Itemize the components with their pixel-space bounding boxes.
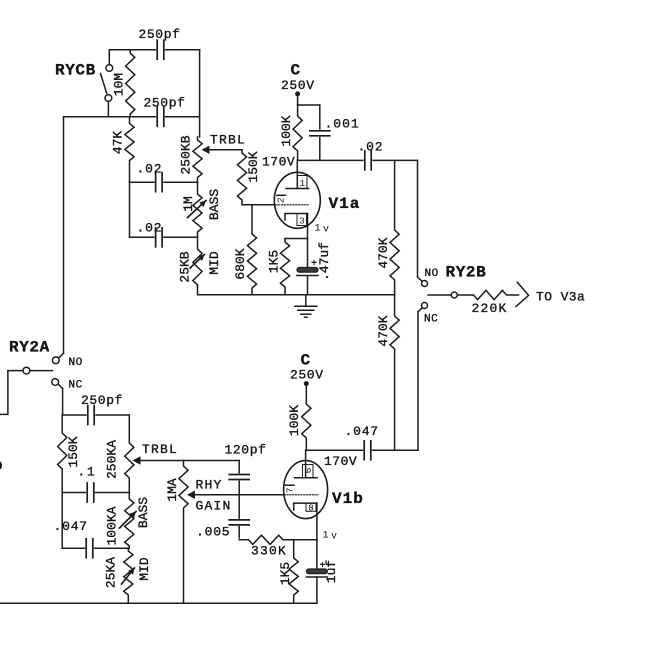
svg-text:.02: .02: [137, 221, 163, 236]
wire left branch down: [61, 493, 63, 549]
svg-text:TRBL: TRBL: [210, 133, 246, 148]
svg-text:.047: .047: [345, 424, 379, 439]
capacitor .02 (tone stack upper): [155, 171, 164, 193]
svg-text:v: v: [323, 225, 329, 236]
svg-text:250V: 250V: [290, 368, 324, 383]
resistor 47K: [125, 117, 134, 182]
25KB wiper arrow: [190, 255, 205, 269]
RY2A contact NO: [52, 357, 59, 364]
wire V1a cathode lead: [307, 214, 309, 239]
capacitor .47uf (electrolytic): [297, 268, 318, 273]
RYCB switch arm: [101, 74, 107, 94]
svg-text:TRBL: TRBL: [142, 442, 178, 457]
250KB wiper arrow: [202, 146, 210, 154]
svg-text:150K: 150K: [246, 151, 261, 182]
resistor 330K: [239, 535, 317, 544]
resistor 470K (lower): [390, 295, 399, 451]
svg-text:V1a: V1a: [329, 195, 361, 213]
supply node dot: [304, 381, 309, 386]
RY2B NC hook: [418, 308, 422, 312]
RY2B pole contact: [451, 292, 457, 298]
svg-text:7: 7: [284, 488, 295, 494]
svg-text:47K: 47K: [111, 131, 126, 155]
svg-text:250pf: 250pf: [81, 393, 123, 408]
resistor 680K: [247, 205, 256, 295]
wire right vertical joining caps to 250KB pot: [199, 50, 201, 137]
RYCB contact (bottom): [105, 95, 112, 102]
wire pole exit left: [0, 371, 8, 415]
250KA wiper arrow: [133, 456, 141, 464]
svg-text:250KA: 250KA: [105, 440, 120, 479]
wire input node to tone stack: [64, 116, 200, 118]
RY2B NO hook: [418, 277, 422, 281]
svg-text:.02: .02: [358, 140, 384, 155]
potentiometer 1M BASS: [193, 182, 202, 237]
wire lower tone-stack node: [130, 236, 198, 238]
wire RY2B pole: [428, 294, 451, 296]
capacitor .1: [86, 482, 95, 504]
wire supply stem: [305, 384, 307, 403]
svg-text:b: b: [0, 458, 3, 475]
V1b grid (dashed): [287, 494, 318, 496]
svg-text:25KA: 25KA: [104, 557, 119, 588]
svg-text:6: 6: [303, 467, 314, 473]
wire V1b cathode lead: [316, 503, 318, 540]
pin 1 box: [297, 176, 307, 189]
svg-text:330K: 330K: [251, 544, 287, 559]
svg-text:.047: .047: [54, 519, 88, 534]
wire grid node V1a: [242, 204, 275, 206]
svg-text:250pf: 250pf: [139, 27, 181, 42]
wire top node (250pf upper): [109, 49, 199, 51]
supply node dot: [295, 91, 300, 96]
svg-text:150K: 150K: [66, 436, 81, 467]
svg-text:RY2A: RY2A: [9, 339, 50, 357]
potentiometer 25KB MID: [193, 237, 202, 286]
svg-text:2: 2: [276, 197, 287, 203]
svg-text:RYCB: RYCB: [55, 62, 96, 80]
svg-text:1M: 1M: [181, 196, 196, 212]
svg-text:C: C: [291, 62, 301, 80]
wire V1a output to RY2B NO: [417, 160, 419, 276]
wire .005 leads: [238, 495, 240, 538]
pin 6 box: [303, 465, 314, 478]
wire .47uf to ground bus: [307, 276, 309, 295]
svg-text:100K: 100K: [287, 405, 302, 436]
resistor 100K (V1b plate load): [302, 403, 311, 450]
svg-text:470K: 470K: [376, 237, 391, 268]
svg-text:1: 1: [299, 178, 305, 189]
svg-text:1K5: 1K5: [278, 562, 293, 585]
potentiometer 250KA TRBL: [125, 415, 134, 493]
wire 250KB wiper to 150K: [210, 149, 243, 151]
1MA wiper arrow: [187, 491, 195, 499]
wire cathode node to 1uf: [316, 540, 318, 569]
wire RY2A NC to lower tone stack: [62, 389, 64, 416]
1M wiper arrow: [188, 201, 207, 218]
capacitor .005: [228, 519, 251, 526]
svg-text:8: 8: [308, 504, 313, 514]
potentiometer 25KA MID: [124, 548, 133, 603]
svg-text:.02: .02: [137, 162, 163, 177]
wire RY2B NC down to V1b output: [417, 312, 419, 451]
triode V1a envelope: [274, 172, 320, 228]
resistor 10M: [126, 50, 135, 117]
svg-text:220K: 220K: [472, 301, 508, 316]
svg-text:1: 1: [314, 223, 320, 235]
wire tone stack input down to RY2A NO: [63, 117, 65, 353]
wire 1uf to bus: [316, 577, 318, 603]
wire lower tone stack top node: [63, 414, 130, 416]
svg-text:120pf: 120pf: [225, 443, 267, 458]
svg-text:v: v: [331, 532, 337, 543]
svg-text:.001: .001: [325, 117, 360, 132]
ground: [305, 295, 307, 306]
wire middle node: [62, 492, 129, 494]
RY2A pole contact: [23, 367, 30, 374]
100KA wiper arrow: [120, 512, 137, 529]
svg-text:.47uf: .47uf: [317, 242, 332, 281]
capacitor 250pf (lower): [156, 106, 165, 128]
potentiometer 1MA RHY GAIN: [179, 461, 188, 604]
pin 7 box tick: [286, 484, 295, 486]
capacitor 250pf (lower channel): [87, 404, 96, 426]
svg-text:RY2B: RY2B: [446, 264, 487, 282]
svg-text:3: 3: [299, 215, 305, 226]
svg-text:170V: 170V: [262, 155, 295, 170]
svg-text:170V: 170V: [324, 454, 357, 469]
wire branch to .001: [298, 104, 320, 106]
capacitor .047 (coupling): [363, 439, 372, 461]
svg-text:250V: 250V: [281, 78, 315, 93]
wire RY2A pole left: [8, 370, 23, 372]
svg-text:V1b: V1b: [332, 490, 364, 508]
capacitor 120pf: [228, 473, 251, 480]
V1a plate bar: [286, 188, 309, 190]
wire bottom ground bus: [0, 602, 317, 604]
wire to .47uf: [307, 239, 309, 268]
svg-text:250pf: 250pf: [144, 96, 186, 111]
wire RYCB bottom contact stem: [107, 102, 109, 117]
resistor 150K: [237, 150, 246, 205]
capacitor 1uf (electrolytic): [306, 569, 327, 574]
RY2B contact NO: [422, 281, 428, 287]
capacitor 250pf (upper bright cap): [156, 39, 165, 61]
wire .001 cap lead: [319, 105, 321, 160]
RYCB contact (top): [106, 65, 113, 72]
svg-text:1: 1: [322, 530, 328, 542]
V1a grid (dashed): [276, 204, 309, 206]
wire 1MA wiper to V1b grid: [195, 494, 285, 496]
svg-text:BASS: BASS: [136, 497, 151, 528]
potentiometer 250KB TRBL: [193, 137, 202, 182]
wire ground bus (top channel): [198, 285, 395, 295]
wire left branch down: [129, 182, 131, 237]
svg-text:1MA: 1MA: [165, 478, 180, 502]
svg-text:100K: 100K: [279, 115, 294, 146]
potentiometer 100KA BASS: [125, 493, 134, 549]
resistor 100K (V1a plate load): [293, 105, 302, 160]
svg-text:NC: NC: [69, 380, 83, 392]
pin 2 box tick: [277, 194, 286, 196]
svg-text:470K: 470K: [376, 315, 391, 346]
svg-text:10M: 10M: [112, 73, 127, 96]
resistor 470K (upper): [390, 160, 399, 294]
pin 8 box: [306, 503, 316, 511]
svg-text:MID: MID: [207, 251, 222, 275]
wire 120pf leads: [238, 461, 240, 495]
wire RY2A pole right: [30, 370, 53, 372]
svg-text:.1: .1: [78, 465, 97, 479]
svg-text:NC: NC: [424, 314, 438, 326]
V1b plate bar: [295, 477, 318, 479]
svg-text:NO: NO: [425, 268, 439, 280]
wire V1a plate lead: [296, 160, 298, 188]
resistor 1K5: [289, 540, 298, 603]
capacitor .02 (tone stack lower): [155, 226, 164, 248]
svg-text:1K5: 1K5: [266, 250, 281, 273]
svg-text:NO: NO: [69, 357, 83, 369]
svg-text:100KA: 100KA: [105, 506, 120, 545]
RY2B contact NC: [422, 303, 428, 309]
svg-text:GAIN: GAIN: [196, 499, 232, 514]
capacitor .047: [85, 537, 94, 559]
svg-text:BASS: BASS: [207, 189, 222, 220]
RY2A contact NC: [52, 379, 59, 386]
svg-text:1uf: 1uf: [324, 560, 339, 583]
svg-text:RHY: RHY: [196, 478, 223, 493]
resistor 220K: [458, 290, 519, 299]
V1a cathode: [285, 214, 308, 221]
svg-text:TO V3a: TO V3a: [536, 289, 585, 304]
resistor 150K: [58, 415, 67, 493]
output arrow to V3a: [516, 282, 529, 306]
svg-text:MID: MID: [137, 557, 152, 581]
wire cathode node: [285, 238, 308, 240]
triode V1b envelope: [284, 461, 328, 519]
wire 250KA wiper to 120pf/1MA: [141, 460, 240, 462]
RY2A NC hook: [59, 385, 63, 389]
capacitor .001: [308, 130, 331, 137]
wire V1b plate node to coupling cap: [306, 449, 418, 451]
wire middle tone-stack node: [130, 181, 198, 183]
RY2A NO hook: [59, 353, 63, 357]
wire supply stem: [297, 94, 299, 105]
wire V1b plate lead: [305, 450, 307, 477]
svg-text:250KB: 250KB: [179, 135, 194, 174]
svg-text:.005: .005: [196, 525, 230, 540]
25KA wiper arrow: [122, 568, 135, 584]
capacitor .02 (coupling): [364, 149, 373, 171]
pin 3 box: [297, 214, 307, 226]
wire V1a plate node to coupling cap: [298, 159, 418, 161]
resistor 1K5: [280, 239, 289, 295]
V1b cathode: [294, 503, 317, 510]
svg-text:680K: 680K: [233, 248, 248, 279]
wire RYCB top contact stem: [108, 50, 110, 65]
wire lower node: [62, 547, 128, 549]
